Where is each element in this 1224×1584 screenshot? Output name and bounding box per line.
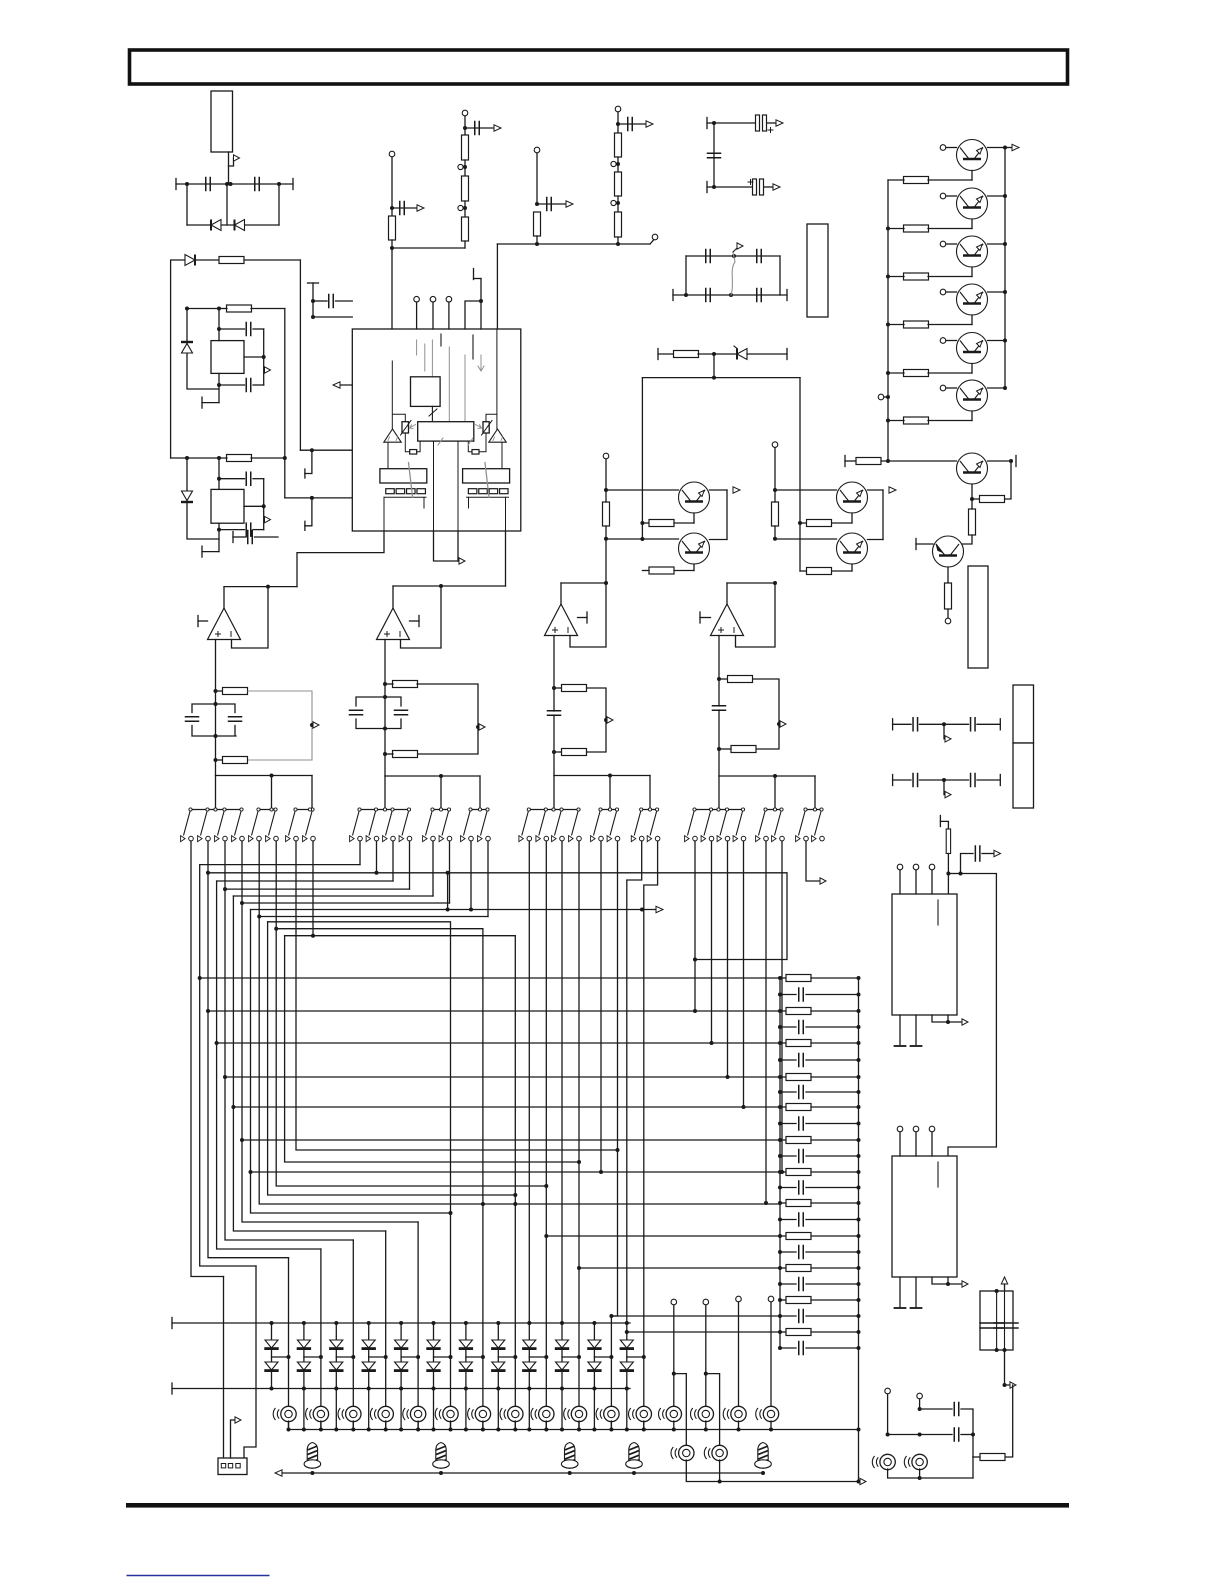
wire [605,459,607,490]
wire [1004,1291,1006,1350]
trunk [814,776,816,809]
wire route [242,902,450,904]
bus wire [216,775,313,777]
junction [857,1170,861,1174]
op1 output wire [223,587,225,608]
junction [857,1314,861,1318]
op-amp U3 [545,604,578,636]
switch [478,808,491,842]
switch trunk pivot [648,808,651,811]
wire [368,1348,370,1362]
diode [426,1362,440,1371]
wire [780,1042,786,1044]
junction [439,774,443,778]
junction [857,1154,861,1158]
pin wire [505,531,507,586]
wire [233,536,246,538]
terminal bar [197,616,199,627]
junction [616,122,620,126]
junction [918,1433,922,1437]
base wire [946,195,957,197]
diode [491,1340,505,1349]
terminal [430,296,436,302]
junction [640,537,644,541]
wire [893,723,911,725]
transistor [957,453,988,484]
wire [928,179,972,181]
wire route [233,1106,780,1108]
junction [798,521,802,525]
input trunk [553,715,555,776]
resistor [223,688,248,695]
arrow [656,906,663,912]
wire [920,1408,952,1410]
junction [857,1122,861,1126]
junction [513,1202,517,1206]
wire [811,1010,859,1012]
internal wire [468,441,472,452]
wire [642,570,649,572]
wire route [627,1331,780,1333]
resistor [389,216,396,240]
wire [497,1323,499,1340]
arrow wire [334,384,352,386]
diode [426,1340,440,1349]
wire route [217,880,393,882]
capacitor [799,1086,804,1099]
wire [806,1219,859,1221]
junction [625,1330,629,1334]
wire [811,1171,859,1173]
wire [216,759,223,761]
wire route [561,841,563,1323]
terminal [611,200,616,205]
switch [350,808,363,842]
emitter wire [971,411,973,421]
junction [717,747,721,751]
slash mark [438,438,443,445]
junction [773,581,777,585]
switch [461,808,474,842]
wire [278,184,280,225]
junction [319,1428,323,1432]
pin wire [391,248,393,329]
terminal bar [844,456,846,467]
terminal [772,442,778,448]
diode [587,1340,601,1349]
wire [610,1421,612,1430]
jack [691,1406,714,1421]
diode [587,1362,601,1371]
resistor [904,417,929,424]
diode [329,1340,343,1349]
capacitor [799,1342,804,1355]
pin wire [434,531,460,561]
wire [780,1010,786,1012]
resistor [786,1074,811,1081]
junction [857,1234,861,1238]
IC U-right-2 [892,1156,957,1277]
terminal [940,145,946,151]
wire [617,112,619,133]
wire route [578,841,580,1429]
diode [394,1340,408,1349]
wire [229,158,234,166]
op3 output wire [560,583,562,604]
junction [778,1298,782,1302]
junction [946,872,950,876]
junction [577,1428,581,1432]
terminal [458,164,463,169]
wire route [727,841,729,1077]
switch wire [392,841,394,881]
junction [274,927,278,931]
wire route [244,1266,256,1458]
wire [928,372,972,374]
IC inner block [418,422,474,441]
jack [273,1406,296,1421]
wire [770,1421,772,1430]
junction [217,383,221,387]
resistor [603,502,610,526]
junction [778,1122,782,1126]
junction [439,1471,443,1475]
resistor [807,568,832,575]
wire route [225,1076,780,1078]
junction [942,778,946,782]
junction [277,182,281,186]
wire [888,420,904,422]
switch tie wire [601,809,618,811]
wire [806,1315,859,1317]
arrow [275,1470,282,1476]
diode [459,1340,473,1349]
arrow [820,878,826,884]
junction [778,1138,782,1142]
wire [780,1106,786,1108]
junction [1003,242,1007,246]
emitter wire [693,564,695,571]
wire [391,157,393,216]
wire [947,609,949,618]
capacitor [713,706,726,711]
internal wire [448,347,450,422]
wire [465,1348,467,1362]
junction [942,722,946,726]
wire [335,1348,337,1362]
junction [778,1330,782,1334]
wire [780,1315,796,1317]
wire [780,1171,786,1173]
hook wire [305,498,312,526]
junction [857,1090,861,1094]
resistor [393,681,418,688]
wire [780,1091,796,1093]
wire [303,1323,305,1340]
wire [888,1469,973,1478]
junction [535,242,539,246]
junction [632,1471,636,1475]
junction [704,1428,708,1432]
switch trunk pivot [270,808,273,811]
wire [561,1370,563,1389]
wire [977,723,1000,725]
arrow [1012,144,1019,150]
junction [857,993,861,997]
internal wire [392,361,405,429]
junction [857,1250,861,1254]
wire [369,1356,386,1358]
wire [465,127,494,129]
junction [287,1428,291,1432]
wire route [217,1042,780,1044]
junction [616,162,620,166]
pin [432,302,434,329]
junction [544,1355,548,1359]
input trunk [718,636,720,707]
resistor internal [472,450,479,455]
wire [674,570,694,572]
emitter wire [851,564,853,571]
junction [446,908,450,912]
pin wire [244,356,264,358]
internal wire [384,496,426,498]
junction [375,871,379,875]
junction [778,1250,782,1254]
resistor [562,685,587,692]
trunk [479,776,481,809]
pin [480,301,482,329]
wire [764,186,773,188]
wire [255,536,279,538]
wire [433,1370,435,1389]
wire route [200,864,360,866]
wire route [743,841,745,1107]
capacitor [395,710,408,715]
junction [1003,1348,1007,1352]
junction [604,488,608,492]
internal wire [387,442,389,469]
diode [620,1362,634,1371]
wire [605,539,607,583]
wire [392,207,417,209]
switch tie wire [529,809,579,811]
wire [368,1389,370,1430]
wire [593,1348,595,1362]
jack [704,1445,727,1460]
wire [400,1323,402,1340]
wire [605,526,607,539]
trimmer [402,422,409,433]
pin wire [899,1277,901,1307]
pin wire [899,1015,901,1045]
switch [232,808,245,842]
junction [214,702,218,706]
wire [561,1323,563,1340]
wire route [285,936,579,1162]
zener diode [737,349,747,360]
jack [659,1406,682,1421]
junction [560,1428,564,1432]
outer loop [187,458,219,539]
wire [464,116,466,135]
wire [385,753,393,755]
connector pin [221,1464,225,1468]
resistor [904,273,929,280]
switch [249,808,262,842]
wire [961,1409,973,1435]
wire [888,179,904,181]
wire [806,1026,859,1028]
wire [747,353,787,355]
emitter wire [971,315,973,325]
resistor [969,509,976,535]
internal wire [501,442,503,469]
loop wire [417,684,478,754]
switch [569,808,582,842]
wire [410,620,420,622]
wire [705,1305,707,1407]
junction [717,677,721,681]
diode [394,1362,408,1371]
junction [416,1428,420,1432]
switch trunk pivot [439,808,442,811]
wire route [242,1139,780,1141]
wire [686,255,780,257]
wire route [600,841,602,1172]
wire [593,1389,595,1430]
terminal bar [232,532,234,543]
junction [311,934,315,938]
wire [719,678,727,680]
junction [311,315,315,319]
junction [351,1355,355,1359]
wire [202,402,219,404]
wire [528,1370,530,1389]
junction [240,1138,244,1142]
jack [435,1406,458,1421]
junction [672,1428,676,1432]
wire [271,1348,273,1362]
capacitor [799,1150,804,1163]
internal arrow [476,425,482,429]
junction [463,126,467,130]
terminal [462,110,468,116]
wire [780,1219,796,1221]
junction [185,307,189,311]
op2 output wire [392,586,394,608]
wire [536,153,538,204]
junction [773,774,777,778]
wire route [251,1171,781,1173]
wire [780,1331,786,1333]
arrow [962,1019,968,1025]
wire route [200,977,780,979]
outer loop [187,309,219,390]
junction [778,1105,782,1109]
switch [266,808,279,842]
jack [756,1406,779,1421]
wire [893,779,911,781]
junction [185,456,189,460]
wire [806,994,859,996]
junction [857,976,861,980]
wire [187,308,219,310]
junction [616,1148,620,1152]
loop wire [587,688,606,752]
wire [562,1356,579,1358]
junction [778,976,782,980]
junction [857,1330,861,1334]
internal wire [405,433,409,452]
wire [251,308,285,310]
wire [528,1389,530,1430]
wire [593,1323,595,1340]
wire [780,1251,796,1253]
resistor [786,1200,811,1207]
wire [320,1421,322,1430]
junction [185,182,189,186]
trunk [215,776,217,810]
switch tie wire [471,809,488,811]
wire [171,260,185,458]
internal arrow [478,355,484,371]
junction [270,774,274,778]
switch tie wire [433,809,450,811]
internal wire [467,496,509,498]
wire [713,123,715,187]
collector wire [710,489,728,491]
jack [306,1406,329,1421]
junction [231,1105,235,1109]
switch [383,808,396,842]
connector block [807,224,828,317]
wire [561,1389,563,1430]
wire [774,448,776,491]
wire [780,1187,796,1189]
wire [780,1026,796,1028]
jack [629,1406,652,1421]
op-amp internal [384,429,401,442]
wire [774,490,776,502]
wire [545,1421,547,1430]
diode bus bottom [172,1388,630,1390]
diode bus top [172,1322,630,1324]
wire [617,237,619,244]
wire [464,201,466,217]
wire [973,1456,980,1458]
wire [352,1421,354,1430]
wire [285,497,353,499]
junction [732,254,736,258]
arrow [566,201,573,207]
diode [555,1340,569,1349]
jack [370,1406,393,1421]
terminal [603,453,609,459]
junction [469,908,473,912]
internal wire [464,355,466,422]
resistor internal [468,489,477,494]
capacitor [994,1323,1018,1328]
wire route [251,909,657,911]
diode [297,1362,311,1371]
switch [399,808,412,842]
wire [219,308,227,310]
wire [271,1370,273,1389]
trunk [609,776,611,810]
diode [264,1362,278,1371]
wire [253,478,264,480]
